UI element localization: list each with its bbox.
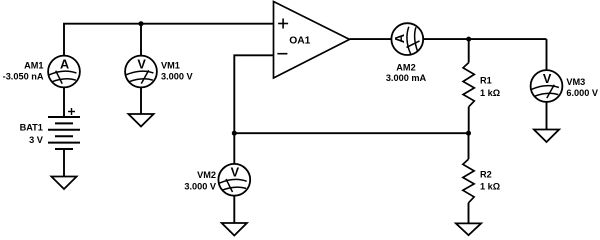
pin - inverting input marker — [277, 53, 287, 55]
svg-text:VM2: VM2 — [197, 170, 216, 180]
wire battery to ground — [63, 149, 65, 177]
ground under battery — [51, 177, 76, 190]
pin + non-inverting input marker — [278, 19, 288, 29]
svg-text:3.000 V: 3.000 V — [161, 72, 194, 82]
ammeter AM1 — [48, 56, 80, 88]
svg-text:BAT1: BAT1 — [20, 122, 43, 132]
wire R1 to lower junction — [468, 107, 470, 133]
svg-text:-3.050 nA: -3.050 nA — [3, 72, 44, 82]
wire op-amp inverting input down to feedback net — [234, 55, 273, 133]
svg-text:6.000 V: 6.000 V — [566, 88, 599, 98]
wire VM1 up to top net — [140, 24, 142, 56]
ammeter AM2 (rotated) — [391, 23, 423, 55]
svg-text:VM3: VM3 — [566, 77, 585, 87]
node feedback junction at VM2 — [232, 131, 237, 136]
node top net junction at VM1 — [139, 21, 144, 26]
voltmeter VM3 — [531, 70, 563, 102]
svg-text:1 kΩ: 1 kΩ — [480, 182, 500, 192]
wire R2 to ground — [468, 203, 470, 224]
svg-text:VM1: VM1 — [161, 61, 180, 71]
svg-text:V: V — [543, 72, 552, 86]
battery BAT1 — [48, 117, 80, 149]
wire VM2 to ground — [233, 196, 235, 223]
voltmeter VM2 — [218, 164, 250, 196]
ground under VM1 — [128, 114, 153, 127]
svg-text:R1: R1 — [480, 76, 492, 86]
wire VM3 to ground — [546, 102, 548, 130]
resistor R2 — [463, 159, 474, 203]
op-amp OA1 — [274, 2, 350, 79]
svg-text:R2: R2 — [480, 170, 492, 180]
svg-text:OA1: OA1 — [289, 36, 310, 47]
ground under R2 — [456, 223, 481, 235]
svg-text:V: V — [231, 166, 240, 180]
svg-text:AM1: AM1 — [24, 61, 43, 71]
svg-text:AM2: AM2 — [396, 62, 415, 72]
wire top net: AM1 up and across to op-amp + input — [64, 24, 274, 56]
svg-text:V: V — [137, 57, 146, 71]
resistor R1 — [463, 63, 474, 107]
ground under VM3 — [534, 130, 559, 143]
wire feedback net across to resistor divider — [234, 132, 468, 134]
wire VM1 to ground — [140, 87, 142, 114]
svg-text:3 V: 3 V — [29, 135, 44, 145]
wire AM1 to battery — [63, 87, 65, 117]
wire junction down to R1 — [468, 39, 470, 63]
node output junction at R1 — [466, 37, 471, 42]
wire junction down to R2 — [468, 133, 470, 159]
wire AM2 to top right corner — [423, 38, 546, 40]
svg-text:3.000 mA: 3.000 mA — [386, 73, 427, 83]
wire op-amp output to AM2 — [350, 38, 392, 40]
node divider junction between R1 and R2 — [466, 131, 471, 136]
battery plus sign — [68, 108, 75, 115]
svg-text:1 kΩ: 1 kΩ — [480, 88, 500, 98]
ground under VM2 — [222, 223, 247, 236]
wire VM2 up to feedback net — [233, 133, 235, 164]
voltmeter VM1 — [125, 56, 157, 88]
svg-text:A: A — [60, 57, 69, 71]
wire top right corner down to VM3 — [546, 39, 548, 70]
svg-text:3.000 V: 3.000 V — [184, 182, 217, 192]
svg-text:A: A — [393, 34, 407, 43]
